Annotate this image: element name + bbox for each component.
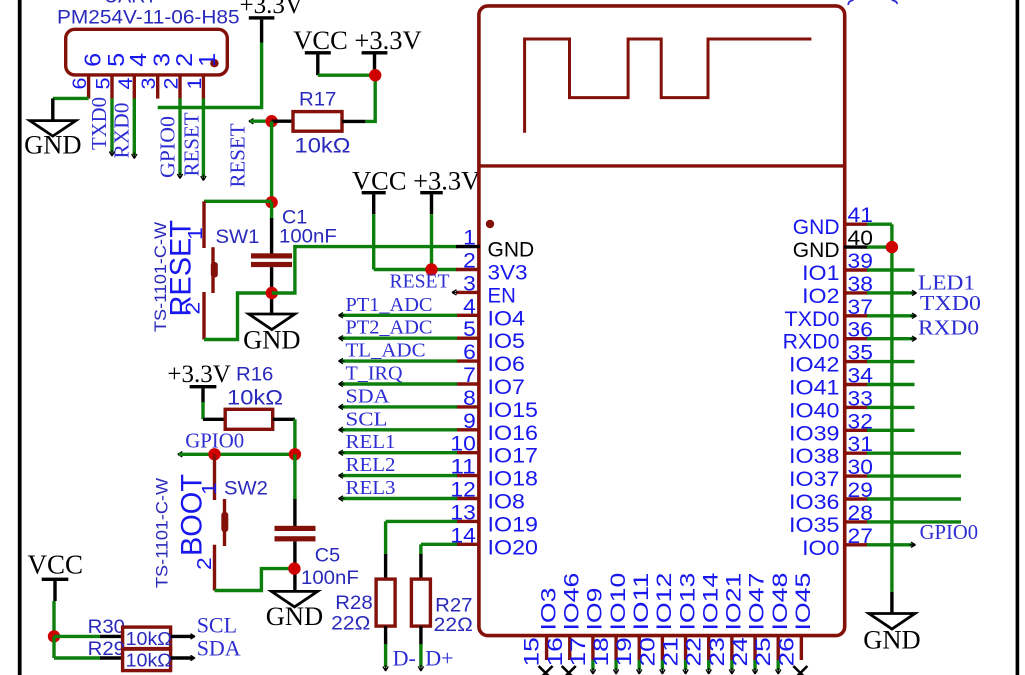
wire IC pin 31 stub — [867, 452, 961, 455]
svg-text:3V3: 3V3 — [488, 262, 528, 285]
junction node +3.3V/VCC/R17 — [369, 69, 381, 81]
IC U1 antenna trace — [525, 39, 812, 133]
wire end arrow pin 37 — [911, 313, 917, 318]
wire end arrow SCL — [189, 634, 195, 639]
wire IC pin13 to R28 — [384, 521, 387, 555]
svg-text:IO14: IO14 — [699, 572, 722, 630]
resistor R29 body — [123, 649, 171, 671]
svg-text:22Ω: 22Ω — [331, 613, 370, 634]
IC U1 pin 18 (IO10) bottom — [614, 636, 617, 660]
svg-text:25: 25 — [752, 637, 775, 666]
connector J1 pin 6 stub — [87, 75, 90, 99]
svg-text:GND: GND — [266, 601, 323, 631]
svg-text:GND: GND — [488, 239, 535, 262]
svg-text:3: 3 — [138, 78, 160, 90]
ground lead at J1 — [51, 98, 54, 120]
wire IC pin 39 stub — [867, 268, 915, 271]
resistor R30 left lead — [100, 635, 123, 638]
IC U1 pin 8 (IO15) left — [456, 405, 480, 408]
sheet border right — [1016, 0, 1020, 675]
capacitor C5 bottom lead — [293, 541, 296, 591]
svg-text:RESET: RESET — [180, 112, 204, 176]
svg-text:VCC: VCC — [28, 550, 84, 580]
svg-text:23: 23 — [706, 637, 729, 666]
wire IC pin 35 stub — [867, 360, 915, 363]
wire end arrow T_IRQ — [339, 381, 345, 386]
IC U1 pin 5 (IO5) left — [456, 337, 480, 340]
IC U1 pin 9 (IO16) left — [456, 428, 480, 431]
capacitor C1 plate 2 — [251, 262, 292, 267]
svg-text:6: 6 — [69, 78, 91, 90]
IC U1 pin 37 (TXD0) right — [844, 314, 868, 317]
svg-text:IO46: IO46 — [560, 573, 583, 631]
svg-text:C5: C5 — [315, 546, 340, 567]
svg-text:PT1_ADC: PT1_ADC — [346, 294, 433, 316]
resistor R17 left lead — [272, 119, 293, 122]
svg-text:R27: R27 — [435, 596, 472, 617]
wire IC pin 28 stub — [867, 520, 961, 523]
svg-text:22: 22 — [683, 637, 706, 666]
svg-text:10kΩ: 10kΩ — [295, 135, 351, 158]
svg-text:RESET: RESET — [226, 123, 250, 187]
svg-text:IO3: IO3 — [537, 588, 560, 631]
svg-text:IO38: IO38 — [789, 445, 840, 468]
resistor R28 top lead — [384, 554, 387, 579]
svg-text:IO17: IO17 — [488, 445, 539, 468]
svg-text:SW2: SW2 — [224, 479, 268, 500]
svg-text:IO6: IO6 — [488, 353, 525, 376]
wire RESET net down to SW1/C1 — [270, 121, 273, 202]
resistor R27 top lead — [419, 554, 422, 579]
svg-text:SDA: SDA — [346, 385, 391, 407]
wire SCL to IC pin 9 — [340, 428, 457, 431]
wire end arrow pin 38 — [911, 290, 917, 295]
switch SW2 button — [221, 512, 228, 532]
svg-text:GPIO0: GPIO0 — [920, 520, 979, 544]
connector J1 pin 1 stub — [202, 75, 205, 99]
resistor R27 body — [411, 579, 430, 626]
IC U1 pin 29 (IO36) right — [844, 497, 868, 500]
power symbol +3.3V bar (R16) — [190, 385, 217, 388]
svg-text:IO42: IO42 — [789, 354, 840, 377]
svg-text:IO20: IO20 — [488, 536, 539, 559]
wire end arrow SDA — [189, 655, 195, 660]
capacitor C1 top lead — [270, 218, 273, 254]
svg-text:EN: EN — [488, 284, 516, 307]
capacitor C1 plate 1 — [251, 253, 292, 258]
power symbol VCC bar (bottom left) — [42, 578, 69, 581]
wire end arrow REL1 — [339, 450, 345, 455]
power VCC stem (upper) — [316, 55, 319, 76]
svg-text:R28: R28 — [335, 593, 372, 614]
svg-text:RXD0: RXD0 — [918, 316, 979, 340]
svg-text:VCC +3.3V: VCC +3.3V — [293, 25, 421, 55]
svg-text:+3.3V: +3.3V — [167, 361, 230, 388]
wire IC pin 32 stub — [867, 429, 915, 432]
wire end arrow REL3 — [339, 496, 345, 501]
IC U1 pin 16 (IO46) bottom — [568, 636, 571, 660]
switch SW1 contact — [211, 247, 214, 293]
power +3.3V stem (upper) — [373, 55, 376, 71]
wire +3.3V down to J1 pin3 — [158, 43, 262, 108]
wire IC pin 29 stub — [867, 497, 961, 500]
svg-text:REL2: REL2 — [346, 454, 396, 476]
svg-text:C1: C1 — [282, 208, 307, 229]
svg-text:100nF: 100nF — [301, 568, 359, 589]
wire GPIO0 net — [179, 453, 295, 456]
svg-text:19: 19 — [613, 637, 636, 666]
wire end arrow PT1_ADC — [339, 313, 345, 318]
switch SW1 pin1 lead — [202, 201, 205, 248]
power VCC stem (bottom left) — [53, 581, 56, 601]
wire VCC down to R29 — [52, 636, 55, 658]
ground symbol (right) — [869, 614, 915, 630]
IC U1 pin 32 (IO39) right — [844, 429, 868, 432]
capacitor C5 plate 1 — [275, 526, 316, 531]
switch SW2 contact — [223, 499, 226, 546]
wire VCC to junction — [318, 73, 371, 76]
junction node GPIO0/R16 — [289, 448, 301, 460]
IC U1 pin 15 (IO3) bottom — [545, 636, 548, 660]
IC U1 pin 19 (IO11) bottom — [638, 636, 641, 660]
IC U1 pin 6 (IO6) left — [456, 359, 480, 362]
svg-text:8: 8 — [463, 387, 476, 410]
junction node SW1/C1 top — [265, 196, 277, 208]
svg-text:IO21: IO21 — [723, 573, 746, 631]
svg-text:IO18: IO18 — [488, 468, 539, 491]
wire IC pin 37 stub — [867, 314, 915, 317]
resistor R16 body — [225, 409, 273, 429]
svg-text:GND: GND — [793, 216, 840, 239]
IC U1 pin 3 (EN) left — [456, 291, 480, 294]
svg-text:1: 1 — [184, 78, 206, 90]
junction node GPIO0/SW2 — [208, 448, 220, 460]
svg-text:1: 1 — [194, 53, 220, 67]
svg-text:GND: GND — [243, 325, 300, 355]
IC U1 pin 13 (IO19) left — [456, 520, 480, 523]
switch SW1 pin2 lead — [202, 292, 205, 340]
svg-text:2: 2 — [171, 53, 197, 67]
svg-text:24: 24 — [729, 637, 752, 667]
svg-text:IO45: IO45 — [792, 573, 815, 631]
wire end arrow pin 36 — [911, 336, 917, 341]
svg-text:IO1: IO1 — [802, 262, 839, 285]
svg-text:IO7: IO7 — [488, 376, 525, 399]
svg-text:IO10: IO10 — [607, 573, 630, 631]
wire J1 pin2 GPIO0 — [178, 98, 181, 175]
svg-text:2: 2 — [194, 557, 216, 570]
svg-text:UART: UART — [104, 0, 157, 8]
svg-text:IO35: IO35 — [789, 514, 840, 537]
svg-text:10kΩ: 10kΩ — [227, 387, 283, 410]
junction node 3V3 — [425, 263, 437, 275]
wire end arrow RXD0 — [132, 153, 137, 159]
text fragment (cut off, top right) — [848, 0, 897, 5]
connector J1 pin1 marker dot — [210, 59, 218, 67]
wire +3.3V stub to junction — [373, 69, 376, 75]
svg-text:6: 6 — [79, 53, 105, 67]
wire SDA to IC pin 8 — [340, 405, 457, 408]
capacitor C5 top lead — [293, 499, 296, 527]
wire IC pin14 to R27 — [419, 544, 422, 555]
wire J1 pin6 to GND — [53, 97, 89, 100]
svg-text:TS-1101-C-W: TS-1101-C-W — [152, 222, 170, 332]
svg-text:7: 7 — [463, 364, 476, 387]
svg-text:IO41: IO41 — [789, 377, 840, 400]
IC U1 pin 33 (IO40) right — [844, 406, 868, 409]
svg-text:GND: GND — [793, 239, 840, 262]
IC U1 pin1 marker dot — [486, 220, 494, 228]
resistor R28 bottom lead — [384, 626, 387, 645]
wire R27 to D+ — [419, 644, 422, 667]
resistor R17 right lead — [342, 120, 365, 123]
IC U1 pin 11 (IO18) left — [456, 474, 480, 477]
svg-text:IO2: IO2 — [802, 285, 839, 308]
resistor R29 left lead — [100, 656, 123, 659]
svg-text:IO36: IO36 — [789, 491, 840, 514]
svg-text:D+: D+ — [425, 645, 453, 670]
IC U1 pin 28 (IO35) right — [844, 520, 868, 523]
wire IC pin 38 stub — [867, 291, 915, 294]
IC U1 pin 25 (IO48) bottom — [777, 636, 780, 660]
wire end arrow TXD0 — [109, 150, 114, 156]
IC U1 pin 23 (IO21) bottom — [730, 636, 733, 660]
svg-text:BOOT: BOOT — [176, 474, 209, 556]
svg-text:IO15: IO15 — [488, 399, 539, 422]
wire PT2_ADC to IC pin 5 — [340, 337, 457, 340]
IC U1 pin 4 (IO4) left — [456, 314, 480, 317]
IC U1 pin 1 (GND) left — [456, 245, 480, 248]
IC U1 pin 10 (IO17) left — [456, 451, 480, 454]
svg-text:IO39: IO39 — [789, 422, 840, 445]
IC U1 ESP32 module body — [479, 6, 845, 636]
junction node RESET at R17 — [265, 115, 277, 127]
svg-text:6: 6 — [463, 341, 476, 364]
svg-text:REL1: REL1 — [346, 431, 396, 453]
power symbol VCC bar (upper) — [305, 51, 331, 54]
wire PT1_ADC to IC pin 4 — [340, 314, 457, 317]
wire end arrow SDA — [339, 404, 345, 409]
svg-text:2: 2 — [161, 78, 183, 90]
svg-text:TXD0: TXD0 — [920, 291, 981, 315]
svg-text:16: 16 — [544, 637, 567, 666]
svg-text:PT2_ADC: PT2_ADC — [346, 317, 433, 339]
svg-text:TXD0: TXD0 — [785, 308, 840, 331]
IC U1 pin 38 (IO2) right — [844, 291, 868, 294]
power +3.3V stem (R16) — [201, 388, 204, 403]
IC U1 pin 7 (IO7) left — [456, 382, 480, 385]
junction node VCC/R30 — [48, 630, 60, 642]
svg-text:IO48: IO48 — [769, 573, 792, 631]
IC U1 pin 14 (IO20) left — [456, 543, 480, 546]
svg-text:GND: GND — [863, 625, 920, 655]
wire T_IRQ to IC pin 7 — [340, 382, 457, 385]
wire +3.3V to R16 — [201, 402, 204, 419]
power symbol VCC bar (mid) — [362, 191, 386, 194]
svg-text:SCL: SCL — [346, 408, 388, 430]
resistor R17 body — [293, 112, 342, 132]
connector J1 pin 5 stub — [110, 75, 113, 99]
sheet border left — [18, 0, 22, 675]
svg-text:100nF: 100nF — [279, 227, 337, 248]
IC U1 pin 2 (3V3) left — [456, 268, 480, 271]
power VCC stem (mid) — [372, 194, 375, 214]
wire IC pin13 row — [386, 520, 457, 523]
svg-text:REL3: REL3 — [346, 477, 396, 499]
svg-text:SCL: SCL — [197, 613, 237, 638]
capacitor C1 top lead (wire) — [270, 202, 273, 220]
wire end arrow SCL — [339, 427, 345, 432]
resistor R30 body — [123, 627, 171, 649]
svg-text:2: 2 — [183, 302, 205, 315]
power symbol +3.3V bar (mid) — [420, 191, 443, 194]
svg-text:IO37: IO37 — [789, 468, 840, 491]
capacitor C1 bottom lead — [270, 267, 273, 314]
svg-text:T_IRQ: T_IRQ — [346, 363, 404, 385]
IC U1 pin 26 (IO45) bottom — [800, 636, 803, 660]
svg-text:3: 3 — [463, 272, 476, 295]
svg-text:IO5: IO5 — [488, 330, 525, 353]
svg-text:TS-1101-C-W: TS-1101-C-W — [154, 478, 172, 588]
wire GND bus vertical — [890, 224, 893, 592]
resistor R16 right lead — [273, 418, 295, 421]
wire RESET stub — [250, 119, 267, 122]
IC U1 pin 34 (IO41) right — [844, 383, 868, 386]
svg-text:D-: D- — [393, 645, 416, 670]
IC U1 pin 17 (IO9) bottom — [591, 636, 594, 660]
wire +3.3V down to junction — [430, 214, 433, 269]
IC U1 pin 41 (GND) right — [844, 222, 868, 225]
connector J1 PM254V-11-06-H85 body — [66, 29, 228, 75]
svg-text:2: 2 — [463, 250, 476, 273]
wire end arrow REL2 — [339, 473, 345, 478]
wire end arrow TL_ADC — [339, 358, 345, 363]
IC U1 pin 20 (IO12) bottom — [661, 636, 664, 660]
IC U1 pin 12 (IO8) left — [456, 497, 480, 500]
wire R16/SW2 net down to C5 — [293, 454, 296, 500]
switch SW2 pin1 lead — [213, 454, 216, 500]
wire end arrow RESET stub — [249, 119, 255, 124]
IC U1 pin 30 (IO37) right — [844, 474, 868, 477]
svg-text:+3.3V: +3.3V — [240, 0, 303, 19]
switch SW2 pin2 lead — [213, 545, 216, 591]
svg-text:1: 1 — [463, 227, 476, 250]
wire J1 pin4 RXD0 — [133, 98, 136, 155]
svg-text:4: 4 — [115, 77, 137, 89]
wire J1 pin5 TXD0 — [110, 98, 113, 152]
svg-text:21: 21 — [660, 637, 683, 666]
svg-text:RESET: RESET — [390, 271, 450, 293]
wire SW2 pin2 to GND junction — [215, 569, 291, 591]
svg-text:TXD0: TXD0 — [87, 97, 111, 150]
connector J1 pin 4 stub — [133, 75, 136, 99]
wire REL2 to IC pin 11 — [340, 474, 457, 477]
wire to IC pin2 (3V3) — [374, 268, 457, 271]
connector J1 pin 2 stub — [178, 75, 181, 99]
wire IC pin27 (IO0) stub — [867, 543, 913, 546]
ground lead (right) — [890, 592, 893, 615]
svg-text:IO13: IO13 — [676, 573, 699, 631]
svg-text:15: 15 — [521, 637, 544, 666]
svg-text:PM254V-11-06-H85: PM254V-11-06-H85 — [57, 8, 240, 29]
ground symbol at C1 — [249, 314, 295, 330]
svg-text:20: 20 — [636, 637, 659, 666]
svg-text:18: 18 — [590, 637, 613, 666]
IC U1 pin 22 (IO14) bottom — [707, 636, 710, 660]
wire R28 to D- — [384, 644, 387, 667]
wire J1 pin1 RESET — [202, 98, 205, 177]
svg-text:R16: R16 — [236, 365, 273, 386]
wire TL_ADC to IC pin 6 — [340, 359, 457, 362]
ground symbol at J1 — [30, 121, 76, 137]
IC U1 pin 40 (GND) right — [844, 245, 868, 248]
resistor R28 body — [376, 579, 395, 626]
svg-text:IO0: IO0 — [802, 537, 839, 560]
wire IC pin 30 stub — [867, 474, 961, 477]
svg-text:R17: R17 — [299, 90, 336, 111]
power symbol +3.3V bar (upper) — [362, 51, 388, 54]
wire SW1 top — [204, 200, 272, 203]
resistor R30 right lead — [171, 635, 193, 638]
switch SW1 button — [211, 262, 218, 278]
wire VCC to R30 — [54, 635, 102, 638]
resistor R27 bottom lead — [419, 626, 422, 645]
svg-text:10kΩ: 10kΩ — [126, 629, 172, 649]
wire VCC down to IC pin2 row — [372, 214, 375, 269]
wire SW1 pin2 to GND junction — [204, 293, 268, 340]
svg-text:IO16: IO16 — [488, 422, 539, 445]
wire end arrow D+ — [418, 665, 423, 671]
power symbol +3.3V bar (top left) — [249, 16, 275, 19]
svg-text:IO19: IO19 — [488, 513, 539, 536]
wire R17 to +3.3V rail — [365, 75, 375, 121]
svg-text:IO8: IO8 — [488, 491, 525, 514]
wire IC pin 33 stub — [867, 406, 915, 409]
svg-text:IO9: IO9 — [584, 588, 607, 631]
capacitor C5 plate 2 — [275, 536, 316, 541]
svg-text:4: 4 — [463, 295, 476, 318]
IC U1 pin 24 (IO47) bottom — [753, 636, 756, 660]
wire REL3 to IC pin 12 — [340, 497, 457, 500]
svg-text:22Ω: 22Ω — [434, 615, 473, 636]
svg-text:RXD0: RXD0 — [783, 331, 840, 354]
connector J1 pin 3 stub — [156, 75, 159, 99]
IC U1 pin 36 (RXD0) right — [844, 337, 868, 340]
svg-text:SDA: SDA — [197, 635, 241, 660]
svg-text:5: 5 — [93, 77, 115, 89]
svg-text:IO4: IO4 — [488, 307, 526, 330]
IC U1 pin 35 (IO42) right — [844, 360, 868, 363]
svg-text:26: 26 — [775, 637, 798, 666]
svg-text:IO40: IO40 — [789, 399, 840, 422]
svg-text:4: 4 — [125, 53, 151, 67]
wire R16 to GPIO0 net — [293, 419, 296, 454]
wire end arrow PT2_ADC — [339, 336, 345, 341]
ground symbol at C5 — [272, 591, 318, 607]
IC U1 antenna divider line — [479, 164, 845, 167]
junction node GND at C1 — [266, 287, 278, 299]
svg-text:SW1: SW1 — [216, 227, 260, 248]
resistor R29 right lead — [171, 656, 193, 659]
IC U1 pin 39 (IO1) right — [844, 268, 868, 271]
wire IC pin 34 stub — [867, 383, 915, 386]
junction node GND bus — [886, 241, 898, 253]
svg-text:17: 17 — [567, 637, 590, 666]
resistor R16 left lead — [203, 418, 225, 421]
IC U1 pin 31 (IO38) right — [844, 452, 868, 455]
wire end arrow pin 27 — [910, 542, 916, 547]
wire VCC to R29 — [54, 656, 102, 659]
